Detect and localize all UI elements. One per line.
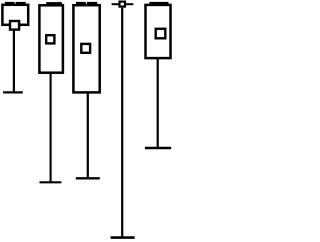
base 1 (3, 91, 23, 93)
mount square 2 inside panel 2 (46, 35, 54, 43)
base 5 (145, 147, 171, 149)
mount square 5 inside panel 5 (156, 29, 166, 39)
top tab 2 on panel 2 (46, 2, 62, 4)
base 4 (111, 236, 135, 239)
post 1 (13, 30, 15, 92)
base 2 (40, 181, 62, 183)
post 2 (50, 73, 52, 182)
top tab 3a on panel 3 (76, 2, 86, 4)
post 4 (121, 8, 123, 238)
crossbar 4 left arm (112, 3, 119, 5)
top tab 3b on panel 3 (87, 2, 97, 4)
top tab 1b on panel 1 (16, 2, 26, 5)
base 3 (76, 177, 100, 179)
sign panel 5 (right placard) (146, 5, 171, 58)
sign panel 1 (top-left wide placard) (2, 5, 28, 25)
mount square 1 on panel 1 bottom edge (10, 21, 19, 30)
top tab 1a on panel 1 (5, 2, 15, 5)
top tab 5 on panel 5 (149, 2, 168, 4)
sign panel 2 (tall placard) (39, 5, 63, 72)
post 5 (157, 59, 159, 148)
mount square 3 inside panel 3 (81, 44, 90, 53)
mount square 4 (bare mount at top of post 4) (120, 2, 126, 7)
post 3 (87, 92, 89, 178)
crossbar 4 right arm (126, 3, 133, 5)
sign panel 3 (tallest placard) (73, 5, 99, 92)
